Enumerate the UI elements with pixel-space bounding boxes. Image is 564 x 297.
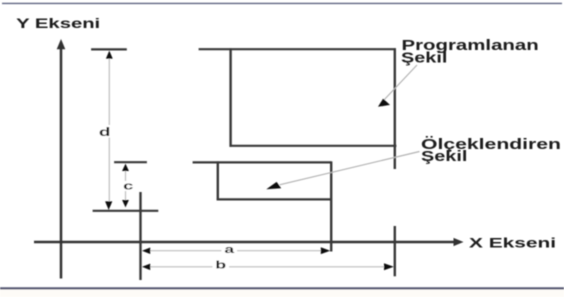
programmed shape rectangle (Programlanan Sekil) (199, 48, 397, 169)
top tick of c dimension (114, 161, 147, 163)
top tick of d dimension (91, 48, 127, 50)
svg-text:a: a (224, 244, 235, 256)
svg-text:b: b (215, 260, 226, 272)
label "Programlanan Sekil" (401, 38, 539, 67)
svg-text:d: d (99, 125, 111, 139)
dimension line c (122, 164, 129, 208)
label d (97, 125, 112, 139)
leader arrow to programmed shape (378, 65, 417, 107)
label c (121, 180, 136, 192)
bottom border (0, 288, 564, 297)
Y axis label "Y Ekseni" (16, 16, 100, 32)
top border (2, 2, 562, 4)
svg-text:X Ekseni: X Ekseni (469, 236, 556, 252)
label b (213, 259, 230, 272)
bottom shared tick of c and d dimensions (93, 210, 159, 212)
dimension line a (142, 247, 330, 254)
label "Olceklendiren Sekil" (421, 136, 561, 165)
svg-text:Y Ekseni: Y Ekseni (16, 16, 100, 32)
Y axis (57, 39, 66, 279)
dimension line d (105, 51, 113, 210)
scaled shape rectangle (Olceklendiren Sekil) (193, 161, 332, 251)
label a (222, 244, 238, 256)
svg-text:Şekil: Şekil (401, 51, 447, 67)
X axis (34, 238, 464, 246)
svg-text:c: c (123, 180, 133, 192)
tick line at right of b dimension (x=395) (394, 226, 396, 276)
tick line at left of a/b dimensions (x=140.5) (139, 192, 141, 280)
X axis label "X Ekseni" (469, 236, 556, 252)
dimension line b (142, 263, 394, 270)
leader arrow to scaled shape (266, 152, 419, 190)
svg-text:Şekil: Şekil (421, 149, 467, 165)
